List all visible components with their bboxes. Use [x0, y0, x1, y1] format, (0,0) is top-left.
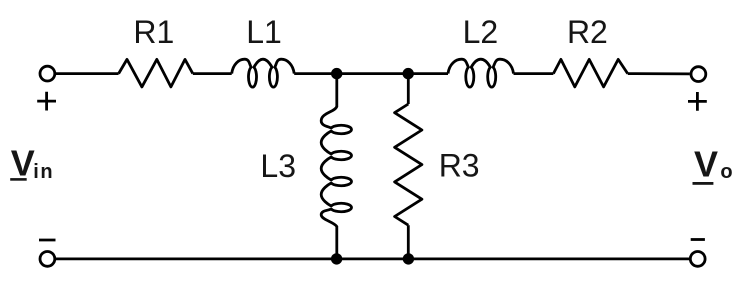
terminal bottom-left — [40, 252, 55, 267]
label L2 — [463, 14, 499, 50]
svg-text:o: o — [720, 161, 732, 183]
label Vo — [693, 144, 733, 185]
wire L3 to bottom rail — [335, 226, 338, 259]
resistor R1 — [119, 59, 193, 87]
wire node B stub down to R3 — [407, 74, 410, 104]
inductor L3 — [321, 107, 351, 227]
wire R3 to bottom rail — [407, 225, 410, 259]
junction node B top — [403, 68, 414, 79]
svg-text:R2: R2 — [567, 14, 608, 50]
svg-text:V: V — [694, 144, 718, 185]
label L1 — [246, 14, 282, 50]
svg-text:R3: R3 — [439, 147, 480, 183]
plus sign right — [688, 92, 707, 111]
label R2 — [567, 14, 608, 50]
svg-text:L1: L1 — [246, 14, 282, 50]
label R3 — [439, 147, 480, 183]
inductor L1 — [232, 59, 295, 87]
bottom rail wire — [56, 257, 690, 260]
svg-text:R1: R1 — [133, 14, 174, 50]
plus sign left — [37, 92, 56, 111]
svg-text:V: V — [11, 143, 35, 184]
minus sign right — [691, 238, 705, 241]
resistor R3 — [395, 104, 422, 225]
junction node A top — [331, 68, 342, 79]
label Vin — [10, 143, 54, 184]
svg-text:L3: L3 — [260, 148, 296, 184]
svg-text:L2: L2 — [463, 14, 499, 50]
terminal bottom-right — [690, 252, 705, 267]
terminal top-left — [40, 66, 55, 81]
wire node A stub down to L3 — [335, 74, 338, 107]
svg-text:in: in — [33, 161, 54, 183]
wire L2 to R2 — [514, 72, 554, 75]
junction node A bottom — [331, 253, 342, 264]
junction node B bottom — [403, 253, 414, 264]
wire R2 to top-right terminal — [628, 72, 690, 75]
label L3 — [260, 148, 296, 184]
wire R1 to L1 — [193, 72, 232, 75]
wire L1 to node B (through node A) — [294, 72, 448, 75]
terminal top-right — [691, 67, 706, 82]
wire top-left to R1 — [56, 72, 119, 75]
minus sign left — [39, 239, 56, 242]
label R1 — [133, 14, 174, 50]
inductor L2 — [448, 59, 514, 87]
resistor R2 — [553, 59, 627, 87]
